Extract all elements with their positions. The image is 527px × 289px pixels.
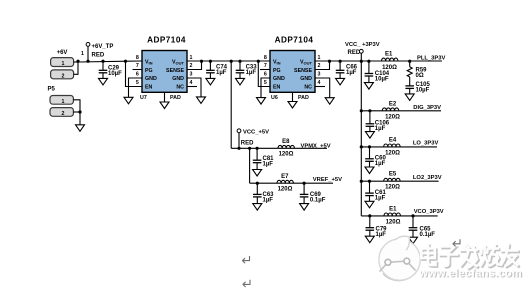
svg-text:NC: NC <box>176 85 184 91</box>
capacitor C69 <box>303 183 305 194</box>
svg-text:1: 1 <box>62 99 65 105</box>
wire TP riser <box>87 47 89 61</box>
ground P5 <box>76 125 85 132</box>
resistor R59 <box>409 61 411 67</box>
capacitor C74 <box>209 61 211 70</box>
svg-text:120Ω: 120Ω <box>385 150 400 156</box>
ground C63 <box>253 204 262 211</box>
svg-text:1µF: 1µF <box>263 198 274 204</box>
svg-text:+6V: +6V <box>57 50 68 56</box>
capacitor C79 <box>369 216 371 228</box>
junction C63 <box>256 182 259 185</box>
svg-text:120Ω: 120Ω <box>385 114 400 120</box>
svg-text:ADP7104: ADP7104 <box>147 36 186 45</box>
inductor E2 <box>382 108 398 111</box>
svg-text:7: 7 <box>136 63 139 69</box>
svg-text:3: 3 <box>190 72 193 78</box>
svg-text:2: 2 <box>62 111 65 117</box>
connector J1 pin 2 <box>51 70 74 79</box>
watermark glyph shao <box>483 246 503 267</box>
svg-text:RED: RED <box>241 140 254 146</box>
junction C29/rail <box>101 60 104 63</box>
svg-text:120Ω: 120Ω <box>386 219 401 225</box>
svg-text:EN: EN <box>145 85 153 91</box>
U6 pin4 NC stub <box>315 86 325 88</box>
U7 PAD stub <box>164 92 166 102</box>
svg-text:VIN: VIN <box>273 59 281 65</box>
svg-text:E5: E5 <box>389 172 397 178</box>
svg-text:1: 1 <box>62 61 65 67</box>
svg-text:2: 2 <box>190 63 193 69</box>
ground C65 <box>409 237 418 244</box>
wire branch3 <box>361 146 437 148</box>
svg-text:1µF: 1µF <box>246 70 257 76</box>
test point VCC_+5V circle <box>237 129 241 133</box>
U6 pin3 GND wire <box>315 78 330 98</box>
svg-text:LO_3P3V: LO_3P3V <box>413 141 439 147</box>
svg-text:VIN: VIN <box>145 59 153 65</box>
svg-text:10µF: 10µF <box>375 77 389 83</box>
svg-text:LO2_3P3V: LO2_3P3V <box>413 175 442 181</box>
junction C81 <box>256 147 259 150</box>
svg-text:PAD: PAD <box>298 95 309 101</box>
svg-text:RED: RED <box>92 53 105 59</box>
wire 3P3V rail vertical <box>360 54 362 216</box>
watermark logo disc <box>379 236 420 280</box>
wire branch5 <box>361 215 437 217</box>
capacitor C63 <box>256 183 258 194</box>
svg-text:E4: E4 <box>389 137 397 143</box>
svg-text:VCC_+5V: VCC_+5V <box>243 129 269 135</box>
U6 pin6 GND wire <box>261 78 270 98</box>
wire branch2 <box>361 110 441 112</box>
svg-text:E8: E8 <box>282 139 290 145</box>
svg-text:DIG_3P3V: DIG_3P3V <box>413 105 441 111</box>
svg-text:ADP7104: ADP7104 <box>275 36 314 45</box>
junction C69 <box>303 182 306 185</box>
U6 pin7 PG stub <box>260 69 270 71</box>
junction C33/rail <box>238 60 241 63</box>
wire P5 pin2 <box>73 111 80 113</box>
svg-text:8: 8 <box>136 55 139 61</box>
svg-text:RED: RED <box>348 50 361 56</box>
inductor E1 (VCO) <box>384 213 400 216</box>
op-amp U7 ADP7104 body <box>142 51 187 93</box>
svg-text:www.elecfans.com: www.elecfans.com <box>418 267 522 279</box>
junction TP/rail <box>86 60 89 63</box>
watermark glyph fa <box>462 246 478 269</box>
ground U6 pin6 <box>257 98 266 105</box>
svg-text:6: 6 <box>136 72 139 78</box>
ground C74 <box>206 78 215 85</box>
U7 EN tie to VIN <box>124 60 127 63</box>
U7 pin7 PG stub <box>133 69 143 71</box>
junction C79 <box>368 214 371 217</box>
wire VCC_+5V TP riser <box>238 133 240 148</box>
ground C69 <box>300 204 309 211</box>
junction rail/branch2 <box>360 109 363 112</box>
svg-text:U7: U7 <box>140 95 147 101</box>
svg-text:1: 1 <box>190 55 193 61</box>
capacitor C106 <box>369 111 371 124</box>
ground C29 <box>99 78 108 85</box>
capacitor C60 <box>369 147 371 159</box>
inductor E8 <box>278 145 294 148</box>
svg-text:VOUT: VOUT <box>172 59 185 65</box>
svg-text:0.1µF: 0.1µF <box>420 232 436 238</box>
junction J1 pin2/rail <box>76 60 79 63</box>
svg-text:SENSE: SENSE <box>166 68 184 74</box>
inductor E7 <box>277 180 293 183</box>
svg-text:E2: E2 <box>389 101 397 107</box>
connector J1 pin 1 <box>51 58 74 67</box>
svg-text:2: 2 <box>62 73 65 79</box>
junction C65 <box>411 214 414 217</box>
junction P5 pins <box>78 110 81 113</box>
capacitor C61 <box>369 181 371 193</box>
svg-text:P5: P5 <box>48 87 56 93</box>
svg-text:GND: GND <box>145 76 157 82</box>
ground U7 PAD <box>160 102 169 109</box>
svg-text:120Ω: 120Ω <box>278 186 293 192</box>
wire E1 to PLL_3P3V <box>398 60 442 62</box>
U7 pin6 GND wire <box>129 78 143 97</box>
wire 5V feed vertical <box>230 61 232 148</box>
svg-text:1: 1 <box>81 51 84 57</box>
svg-text:10µF: 10µF <box>108 71 122 77</box>
svg-text:NC: NC <box>304 85 312 91</box>
ground C104 <box>364 83 373 90</box>
svg-text:10µF: 10µF <box>416 88 430 94</box>
junction C74/rail <box>209 60 212 63</box>
ground C60 <box>365 167 374 174</box>
svg-text:8: 8 <box>264 55 267 61</box>
wire U7 VOUT rail <box>187 60 270 62</box>
wire P5 pin1 down <box>73 100 80 112</box>
junction C60 <box>368 145 371 148</box>
ground U6 PAD <box>288 102 297 109</box>
return mark 2 <box>243 280 250 287</box>
test point VCC_+3P3V circle <box>359 49 363 53</box>
svg-text:EN: EN <box>273 85 281 91</box>
ground C81 <box>253 170 262 177</box>
svg-text:1µF: 1µF <box>375 126 386 132</box>
svg-text:7: 7 <box>264 63 267 69</box>
wire 5V corner to VPMX <box>231 147 327 149</box>
junction VREF feed <box>248 147 251 150</box>
U7 pin4 NC stub <box>187 86 197 88</box>
ground U7 pin6 <box>124 97 133 104</box>
junction rail/branch1 <box>360 60 363 63</box>
capacitor C65 <box>412 216 414 228</box>
inductor E4 <box>384 144 400 147</box>
svg-text:U6: U6 <box>271 95 278 101</box>
junction TP/VPMX <box>237 147 240 150</box>
svg-text:5: 5 <box>136 80 139 86</box>
ground C61 <box>365 201 374 208</box>
svg-text:1µF: 1µF <box>375 161 386 167</box>
svg-text:120Ω: 120Ω <box>279 152 294 158</box>
svg-text:E1: E1 <box>385 52 393 58</box>
wire branch4 <box>361 180 438 182</box>
svg-text:PAD: PAD <box>170 95 181 101</box>
svg-text:PLL_3P3V: PLL_3P3V <box>417 56 445 62</box>
watermark logo trace <box>380 261 416 271</box>
watermark logo pad 1 <box>385 259 391 265</box>
junction C104 <box>367 60 370 63</box>
wire J1 pin1 to main rail <box>74 61 78 63</box>
svg-text:1µF: 1µF <box>263 162 274 168</box>
svg-text:4: 4 <box>190 80 193 86</box>
svg-text:4: 4 <box>318 80 321 86</box>
svg-text:GND: GND <box>273 76 285 82</box>
svg-text:1µF: 1µF <box>375 195 386 201</box>
ground U7 pin3 <box>197 97 206 104</box>
U6 SENSE tie to VOUT <box>315 61 330 70</box>
test point +6V_TP circle <box>86 43 90 47</box>
svg-text:PG: PG <box>273 68 281 74</box>
svg-text:1µF: 1µF <box>346 70 357 76</box>
junction C66/rail <box>339 60 342 63</box>
capacitor C105 <box>405 85 414 87</box>
watermark logo pad 2 <box>404 258 410 264</box>
svg-text:E7: E7 <box>281 174 289 180</box>
ground C33 <box>236 78 245 85</box>
connector P5 pin 1 <box>50 96 73 105</box>
svg-text:6: 6 <box>264 72 267 78</box>
U7 SENSE tie to VOUT <box>187 61 202 70</box>
svg-text:2: 2 <box>318 63 321 69</box>
return mark 1 <box>243 256 250 263</box>
U6 PAD stub <box>292 92 294 101</box>
svg-text:120Ω: 120Ω <box>385 185 400 191</box>
watermark glyph you <box>503 246 519 267</box>
U6 EN tie to VIN <box>257 60 260 63</box>
watermark glyph dian <box>423 246 437 267</box>
ground U6 pin3 <box>325 98 334 105</box>
wire VREF feed vertical <box>249 148 251 183</box>
svg-text:VOUT: VOUT <box>300 59 313 65</box>
capacitor C81 <box>256 148 258 160</box>
ground C79 <box>365 236 374 243</box>
svg-text:SENSE: SENSE <box>294 68 312 74</box>
U7 pin3 GND wire <box>187 78 201 97</box>
capacitor C29 <box>102 61 104 70</box>
ground C66 <box>336 78 345 85</box>
svg-text:1µF: 1µF <box>216 70 227 76</box>
capacitor C66 <box>339 61 341 70</box>
junction C106 <box>368 109 371 112</box>
connector P5 pin 2 <box>50 108 73 117</box>
inductor E1 (PLL) <box>382 58 398 61</box>
svg-text:PG: PG <box>145 68 153 74</box>
svg-text:VREF_+5V: VREF_+5V <box>313 177 342 183</box>
watermark glyph zi <box>441 248 458 267</box>
svg-text:E1: E1 <box>389 206 397 212</box>
svg-text:VCO_3P3V: VCO_3P3V <box>414 209 444 215</box>
wire J1 pin2 up to rail <box>74 61 78 74</box>
junction C61 <box>368 180 371 183</box>
svg-text:GND: GND <box>172 76 184 82</box>
wire VREF branch <box>250 182 333 184</box>
junction 5V feed <box>230 60 233 63</box>
svg-text:0Ω: 0Ω <box>416 73 424 79</box>
capacitor C33 <box>239 61 241 70</box>
wire U6 VOUT rail <box>315 60 442 62</box>
return mark 3 <box>453 239 460 246</box>
junction rail/branch4 <box>360 180 363 183</box>
capacitor C104 <box>368 61 370 74</box>
svg-text:GND: GND <box>300 76 312 82</box>
junction R59 <box>408 60 411 63</box>
ground C105 <box>405 94 414 101</box>
svg-text:1: 1 <box>318 55 321 61</box>
ground C106 <box>365 132 374 139</box>
svg-text:1µF: 1µF <box>376 232 387 238</box>
svg-text:VPMX_+5V: VPMX_+5V <box>301 143 331 149</box>
wire P5 to ground <box>79 112 81 125</box>
svg-text:3: 3 <box>318 72 321 78</box>
svg-text:VCC_ +3P3V: VCC_ +3P3V <box>345 42 380 48</box>
svg-text:0.1µF: 0.1µF <box>310 198 326 204</box>
svg-text:5: 5 <box>264 80 267 86</box>
op-amp U6 ADP7104 body <box>270 51 315 93</box>
inductor E5 <box>384 178 400 181</box>
svg-text:120Ω: 120Ω <box>382 65 397 71</box>
junction rail/branch3 <box>360 145 363 148</box>
svg-text:+6V_TP: +6V_TP <box>92 44 114 50</box>
